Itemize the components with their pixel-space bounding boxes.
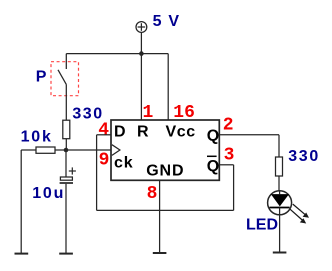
LED circle (268, 191, 292, 215)
svg-text:8: 8 (147, 184, 158, 204)
LED cathode bar (270, 207, 290, 209)
svg-text:16: 16 (173, 103, 195, 123)
svg-text:9: 9 (99, 151, 110, 171)
wire: down to resistor (278, 135, 280, 157)
wire: junction to capacitor (65, 150, 67, 177)
capacitor 10u bottom plate (60, 182, 73, 184)
svg-text:LED: LED (246, 216, 278, 233)
LED anode stub (279, 191, 281, 194)
wire: 10k to IC clock (55, 149, 111, 151)
wire: switch top stub (65, 54, 67, 69)
wire: top horizontal rail (66, 53, 168, 55)
switch P lever (58, 70, 66, 85)
wire: R pin 1 vertical (140, 54, 142, 120)
resistor 330 (right) (276, 157, 283, 176)
power source +5V symbol (136, 22, 147, 33)
svg-text:2: 2 (223, 115, 234, 135)
svg-text:5 V: 5 V (153, 13, 181, 30)
ground IC (153, 252, 167, 254)
LED triangle (271, 194, 289, 206)
wire: switch to resistor (65, 84, 67, 120)
svg-text:D: D (114, 124, 126, 141)
resistor 10k (36, 147, 55, 153)
svg-text:Q: Q (207, 128, 219, 145)
svg-text:10k: 10k (21, 129, 53, 146)
wire: D pin stub (97, 134, 111, 136)
wire: left rail down (20, 150, 22, 253)
svg-text:ck: ck (114, 154, 134, 171)
capacitor 10u top plate (60, 177, 72, 180)
capacitor 10u plus sign (69, 167, 76, 174)
wire: feedback right vertical (233, 165, 235, 211)
wire: feedback bottom horizontal (97, 209, 234, 211)
svg-text:P: P (36, 68, 47, 85)
svg-text:R: R (137, 124, 149, 141)
IC flip-flop body (111, 120, 219, 180)
wire: Q-bar pin stub (219, 164, 233, 166)
junction mid (64, 148, 69, 153)
wire: resistor to junction (65, 139, 67, 150)
resistor 330 (left) (63, 120, 70, 139)
ground left (15, 253, 29, 255)
wire: feedback left vertical (96, 135, 98, 211)
wire: Q output horizontal (219, 134, 279, 136)
ground LED (273, 252, 287, 254)
wire: capacitor down (65, 184, 67, 253)
wire: GND pin down (159, 180, 161, 252)
svg-text:GND: GND (146, 163, 184, 180)
svg-text:Vcc: Vcc (166, 124, 196, 141)
wire: LED down (279, 208, 281, 253)
svg-text:4: 4 (98, 120, 109, 140)
svg-text:3: 3 (224, 146, 235, 166)
wire: resistor to LED (278, 176, 280, 191)
svg-text:1: 1 (143, 103, 154, 123)
clock triangle (112, 145, 120, 156)
wire: Vcc pin 16 vertical (167, 54, 169, 120)
wire: 5V stub down to rail (140, 32, 142, 53)
svg-text:Q: Q (207, 158, 219, 175)
switch P dashed selection box (51, 62, 79, 96)
junction top (139, 51, 144, 56)
LED emission arrow 1 (293, 204, 309, 218)
LED emission arrow 2 (290, 209, 306, 223)
wire: left rail horizontal (21, 149, 36, 151)
svg-text:10u: 10u (32, 185, 65, 202)
ground capacitor (59, 253, 73, 255)
svg-text:330: 330 (288, 148, 320, 165)
